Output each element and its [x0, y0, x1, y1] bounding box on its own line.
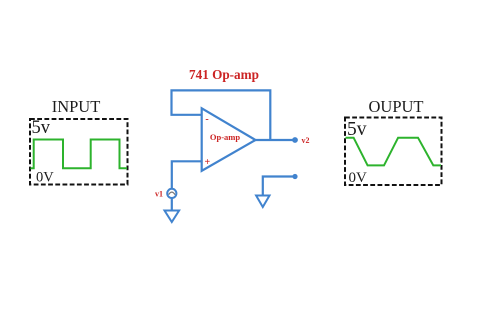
ground right — [256, 196, 269, 208]
svg-text:-: - — [205, 114, 208, 125]
svg-text:v1: v1 — [155, 189, 163, 198]
node dot right — [292, 174, 297, 179]
svg-text:INPUT: INPUT — [52, 97, 101, 116]
ground under v1 — [165, 211, 180, 223]
svg-text:OUPUT: OUPUT — [368, 97, 423, 116]
wire plus input — [172, 161, 202, 189]
svg-text:0V: 0V — [36, 169, 54, 185]
svg-text:5v: 5v — [32, 118, 51, 138]
svg-text:+: + — [204, 157, 210, 168]
svg-text:v2: v2 — [302, 136, 310, 145]
wire output — [256, 139, 296, 141]
node v2 dot — [292, 137, 298, 143]
svg-text:0V: 0V — [349, 170, 368, 186]
wire to right ground — [263, 177, 295, 196]
wire v1 to ground — [171, 198, 173, 211]
op-amp U1 — [202, 108, 256, 171]
wire feedback loop — [172, 90, 271, 139]
svg-text:Op-amp: Op-amp — [210, 132, 241, 142]
input square wave — [31, 140, 128, 169]
input box — [30, 119, 128, 185]
source V1 — [167, 189, 176, 198]
svg-text:741 Op-amp: 741 Op-amp — [189, 67, 259, 82]
output box — [345, 118, 442, 186]
output trapezoid wave — [346, 138, 442, 166]
